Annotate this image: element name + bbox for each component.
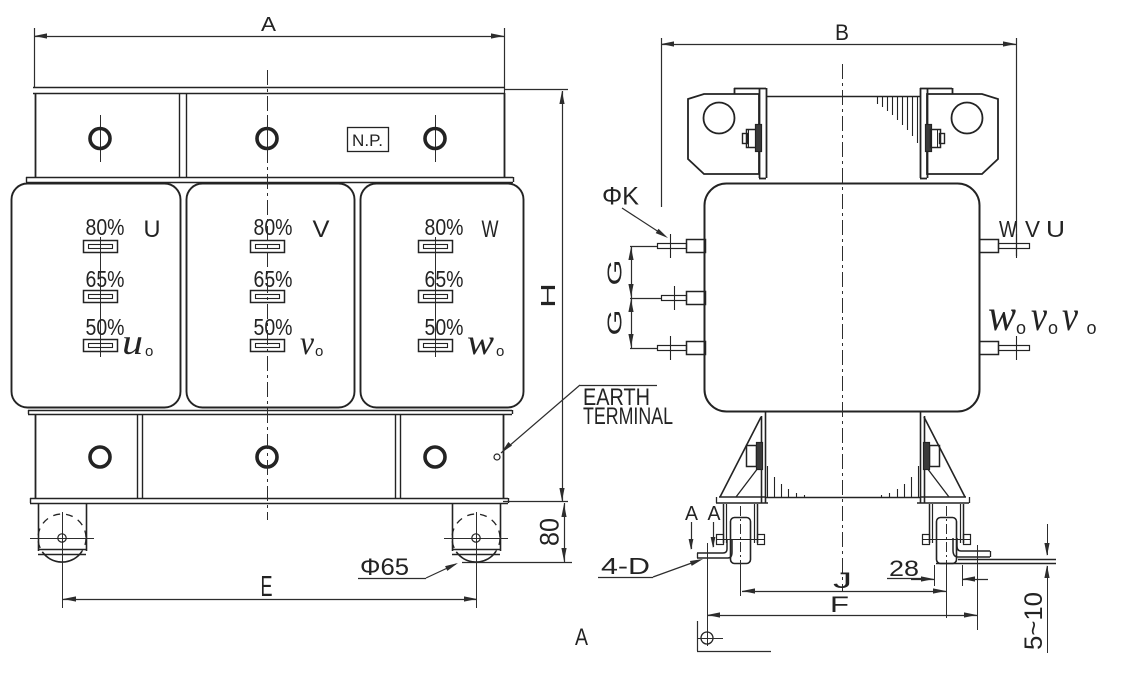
svg-text:50%: 50% (254, 314, 293, 340)
svg-text:u: u (122, 322, 143, 362)
svg-text:65%: 65% (425, 266, 464, 292)
svg-text:o: o (315, 343, 323, 360)
svg-text:A: A (708, 502, 721, 525)
svg-text:v: v (300, 325, 315, 362)
svg-text:4-D: 4-D (601, 553, 650, 579)
svg-text:w: w (988, 291, 1017, 340)
svg-text:ΦK: ΦK (602, 183, 639, 211)
svg-text:o: o (1048, 318, 1058, 338)
svg-text:J: J (833, 568, 852, 593)
svg-text:o: o (1016, 318, 1026, 338)
svg-text:A: A (261, 14, 277, 36)
svg-text:U: U (144, 216, 161, 243)
svg-text:o: o (496, 343, 504, 360)
svg-text:A: A (685, 502, 698, 525)
svg-text:80%: 80% (254, 214, 293, 240)
svg-text:G: G (605, 310, 627, 336)
svg-text:B: B (835, 20, 849, 45)
svg-text:80%: 80% (86, 214, 125, 240)
svg-text:65%: 65% (86, 266, 125, 292)
svg-text:V: V (1025, 216, 1040, 242)
svg-text:5~10: 5~10 (1020, 592, 1048, 650)
svg-text:80%: 80% (425, 214, 464, 240)
svg-text:v: v (1031, 294, 1047, 340)
svg-text:50%: 50% (425, 314, 464, 340)
svg-text:A: A (575, 624, 589, 651)
svg-text:o: o (1087, 318, 1097, 338)
svg-text:w: w (467, 322, 494, 362)
svg-text:TERMINAL: TERMINAL (583, 403, 673, 430)
svg-text:E: E (261, 571, 273, 603)
svg-text:65%: 65% (254, 266, 293, 292)
svg-text:W: W (482, 216, 499, 243)
svg-text:Φ65: Φ65 (360, 554, 409, 581)
svg-text:v: v (1062, 294, 1078, 340)
svg-text:G: G (605, 260, 627, 286)
svg-text:H: H (537, 283, 560, 308)
svg-text:28: 28 (889, 556, 919, 581)
svg-text:W: W (999, 216, 1018, 242)
svg-text:V: V (313, 216, 330, 243)
svg-text:50%: 50% (86, 314, 125, 340)
svg-text:F: F (830, 592, 849, 617)
svg-text:U: U (1046, 216, 1065, 242)
svg-text:N.P.: N.P. (352, 131, 383, 150)
svg-text:o: o (145, 343, 153, 360)
svg-text:80: 80 (535, 518, 565, 546)
